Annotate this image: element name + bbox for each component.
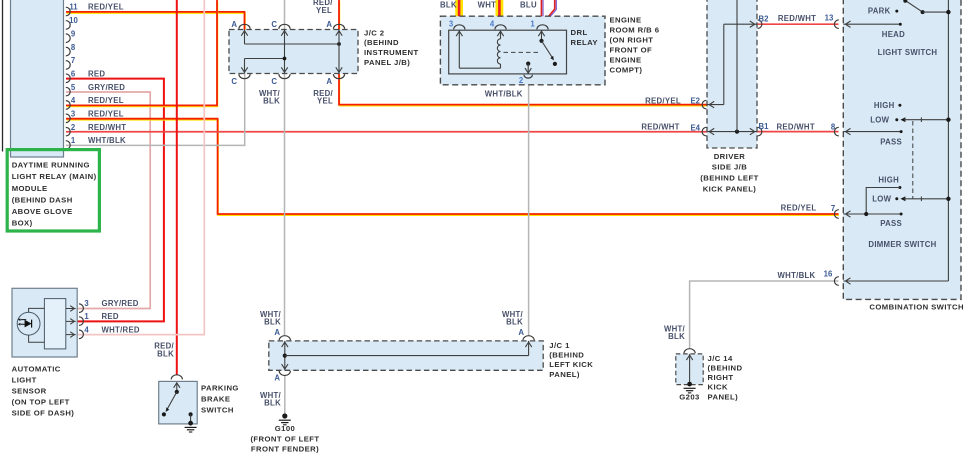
svg-text:LIGHT: LIGHT xyxy=(12,375,37,384)
svg-text:(BEHIND: (BEHIND xyxy=(708,364,743,373)
wire RED/YEL from top of page to J/C2 pin A top-right xyxy=(338,0,341,31)
driver side J/B junction block xyxy=(690,0,769,148)
label WHT/BLK below J/C2 bottom C pin xyxy=(259,89,281,106)
svg-text:16: 16 xyxy=(824,270,833,279)
label: daytime running light relay module (green outlined box) xyxy=(7,150,99,231)
svg-text:2: 2 xyxy=(71,123,76,132)
svg-text:1: 1 xyxy=(71,136,76,145)
combination switch assembly xyxy=(834,0,961,299)
wire labels near driver side J/B xyxy=(641,13,836,280)
label WHT/BLK below relay pin 2 xyxy=(485,90,523,99)
svg-text:PANEL J/B): PANEL J/B) xyxy=(364,58,410,67)
svg-text:YEL: YEL xyxy=(316,6,332,15)
svg-text:C: C xyxy=(231,77,237,86)
wire GRY/RED module pin 5 down to light sensor pin 3 xyxy=(66,92,150,309)
ground G100 xyxy=(250,413,319,453)
label: driver side J/B behind left kick panel xyxy=(700,152,758,193)
svg-text:A: A xyxy=(518,328,524,337)
svg-text:WHT/BLK: WHT/BLK xyxy=(88,136,126,145)
svg-text:(ON RIGHT: (ON RIGHT xyxy=(610,35,654,44)
label: automatic light sensor location xyxy=(12,364,75,417)
svg-text:FRONT FENDER): FRONT FENDER) xyxy=(251,445,319,454)
svg-text:E4: E4 xyxy=(690,123,700,132)
svg-text:RED/WHT: RED/WHT xyxy=(641,122,679,131)
svg-text:G203: G203 xyxy=(679,393,700,402)
svg-text:SENSOR: SENSOR xyxy=(12,386,47,395)
svg-text:13: 13 xyxy=(825,13,834,22)
svg-text:LOW: LOW xyxy=(870,115,889,124)
svg-text:BLK: BLK xyxy=(264,399,281,408)
wire RED/WHT driver side J/B pin B2 to combination switch pin 13 xyxy=(757,23,839,25)
svg-text:RED: RED xyxy=(102,312,119,321)
svg-text:BLU: BLU xyxy=(520,1,537,10)
svg-text:WHT/RED: WHT/RED xyxy=(102,325,140,334)
label: J/C1 behind left kick panel xyxy=(549,341,593,379)
svg-text:HIGH: HIGH xyxy=(878,175,899,184)
wire RED/WHT module pin 2 to driver side J/B pin E4 xyxy=(66,131,707,133)
label: parking brake switch xyxy=(201,383,239,414)
svg-text:2: 2 xyxy=(519,76,524,85)
wire RED module pin 6 down to light sensor pin 1 xyxy=(66,79,164,322)
svg-text:WHT/BLK: WHT/BLK xyxy=(485,90,523,99)
svg-text:3: 3 xyxy=(84,299,89,308)
svg-text:J/C 1: J/C 1 xyxy=(549,341,570,350)
svg-text:C: C xyxy=(271,77,277,86)
wire WHT/BLK J/C2 pin C bottom to J/C1 pin A top-left xyxy=(284,74,286,336)
svg-text:SIDE J/B: SIDE J/B xyxy=(712,163,747,172)
svg-text:11: 11 xyxy=(69,3,78,12)
svg-text:GRY/RED: GRY/RED xyxy=(102,299,139,308)
svg-text:(ON TOP LEFT: (ON TOP LEFT xyxy=(12,397,70,406)
label: J/C14 behind right kick panel xyxy=(708,354,743,401)
svg-text:BLK: BLK xyxy=(264,318,281,327)
svg-text:E2: E2 xyxy=(690,97,700,106)
svg-text:BRAKE: BRAKE xyxy=(201,394,230,403)
wire RED/YEL J/C2 pin A bottom to driver side J/B pin E2 xyxy=(339,74,708,106)
svg-text:A: A xyxy=(326,77,332,86)
svg-text:HIGH: HIGH xyxy=(874,101,895,110)
label WHT/BLK above J/C14 xyxy=(664,325,686,342)
junction connector J/C1 xyxy=(269,328,543,383)
svg-text:DRIVER: DRIVER xyxy=(714,152,746,161)
label: combination switch xyxy=(869,303,964,312)
svg-text:RED/YEL: RED/YEL xyxy=(88,3,124,12)
svg-text:(FRONT OF LEFT: (FRONT OF LEFT xyxy=(250,434,319,443)
svg-text:COMPT): COMPT) xyxy=(610,65,643,74)
wire WHT/BLK J/C1 pin A bottom to ground G100 xyxy=(284,375,286,414)
svg-text:(BEHIND DASH: (BEHIND DASH xyxy=(12,195,73,204)
labels BLK WHT BLU at top wires xyxy=(440,1,537,10)
labels WHT/BLK around J/C1 xyxy=(260,310,524,408)
wire RED/WHT driver side J/B pin B1 to combination switch pin 8 xyxy=(757,131,839,133)
svg-text:BLK: BLK xyxy=(506,318,523,327)
svg-text:DRL: DRL xyxy=(571,28,588,37)
svg-text:5: 5 xyxy=(71,83,76,92)
svg-text:GRY/RED: GRY/RED xyxy=(88,83,125,92)
wire WHT/RED from top of page down to light sensor pin 4 xyxy=(77,0,204,335)
junction connector J/C14 with ground G203 xyxy=(676,349,703,402)
svg-text:RED: RED xyxy=(88,69,105,78)
svg-text:(BEHIND LEFT: (BEHIND LEFT xyxy=(700,174,758,183)
svg-text:A: A xyxy=(326,20,332,29)
svg-text:WHT/BLK: WHT/BLK xyxy=(778,271,816,280)
svg-text:PASS: PASS xyxy=(880,137,902,146)
svg-text:AUTOMATIC: AUTOMATIC xyxy=(12,364,61,373)
svg-text:4: 4 xyxy=(84,325,89,334)
wire BLK (yellow/red) feed to DRL relay pin 3 xyxy=(455,0,463,26)
svg-text:BLK: BLK xyxy=(440,1,457,10)
svg-text:J/C 14: J/C 14 xyxy=(708,354,733,363)
wire WHT/BLK combination switch pin 16 to J/C14 xyxy=(690,281,839,348)
wire WHT/BLK from top of page to J/C2 pin C top xyxy=(284,0,286,30)
wire WHT (yellow/red) feed to DRL relay pin 4 xyxy=(495,0,503,26)
svg-text:RED/WHT: RED/WHT xyxy=(88,123,126,132)
svg-text:PARK: PARK xyxy=(868,6,891,15)
module connector box (DRL relay module, cropped at top) xyxy=(3,0,64,157)
wire RED/YEL module pin 11 to J/C2 pin A top-left xyxy=(66,12,245,31)
label RED/YEL above J/C2 top-right pin xyxy=(313,0,333,15)
svg-text:LOW: LOW xyxy=(872,194,891,203)
svg-text:HEAD: HEAD xyxy=(882,30,905,39)
svg-text:MODULE: MODULE xyxy=(12,184,48,193)
svg-text:9: 9 xyxy=(71,29,76,38)
svg-text:INSTRUMENT: INSTRUMENT xyxy=(364,48,419,57)
svg-text:ENGINE: ENGINE xyxy=(610,15,642,24)
svg-text:A: A xyxy=(274,374,280,383)
svg-text:J/C 2: J/C 2 xyxy=(364,28,384,37)
svg-text:RELAY: RELAY xyxy=(571,38,598,47)
svg-text:B1: B1 xyxy=(759,122,770,131)
svg-text:COMBINATION SWITCH: COMBINATION SWITCH xyxy=(869,303,964,312)
wire BLU feed to DRL relay pin 1 (two branches) xyxy=(541,0,556,25)
svg-text:A: A xyxy=(274,328,280,337)
svg-text:DAYTIME RUNNING: DAYTIME RUNNING xyxy=(12,161,90,170)
svg-text:1: 1 xyxy=(84,312,89,321)
svg-text:FRONT OF: FRONT OF xyxy=(610,45,653,54)
wire WHT/BLK module pin 1 to J/C2 pin C bottom-left xyxy=(66,74,245,146)
svg-text:4: 4 xyxy=(71,96,76,105)
label: engine room R/B 6 location xyxy=(610,15,660,74)
relay DRL in engine room R/B 6 xyxy=(440,16,605,85)
automatic light sensor xyxy=(12,288,140,357)
svg-text:PARKING: PARKING xyxy=(201,383,239,392)
wire RED/YEL module pin 4 up off-page xyxy=(66,0,218,107)
svg-text:A: A xyxy=(231,20,237,29)
junction connector J/C2 xyxy=(229,20,358,86)
wire RED/YEL module pin 3 to combination switch pin 7 xyxy=(66,119,839,216)
label RED/YEL below J/C2 bottom A pin xyxy=(313,89,333,106)
svg-text:BLK: BLK xyxy=(668,332,685,341)
svg-text:B2: B2 xyxy=(759,15,770,24)
svg-text:SWITCH: SWITCH xyxy=(201,405,234,414)
svg-text:BOX): BOX) xyxy=(12,219,33,228)
svg-text:3: 3 xyxy=(71,110,76,119)
svg-text:PANEL): PANEL) xyxy=(549,370,580,379)
svg-text:1: 1 xyxy=(530,20,535,29)
svg-text:KICK: KICK xyxy=(708,383,728,392)
svg-text:PASS: PASS xyxy=(880,219,902,228)
svg-text:10: 10 xyxy=(69,16,78,25)
label RED/BLK above parking brake switch xyxy=(154,342,174,359)
label: J/C2 behind instrument panel J/B xyxy=(364,28,419,67)
svg-text:7: 7 xyxy=(71,56,75,65)
svg-text:ABOVE GLOVE: ABOVE GLOVE xyxy=(12,207,73,216)
svg-text:RED/YEL: RED/YEL xyxy=(88,96,124,105)
svg-text:LEFT KICK: LEFT KICK xyxy=(549,360,593,369)
svg-text:RED/WHT: RED/WHT xyxy=(778,14,816,23)
parking brake switch xyxy=(159,375,198,432)
svg-text:LIGHT SWITCH: LIGHT SWITCH xyxy=(878,48,938,57)
svg-text:RED/YEL: RED/YEL xyxy=(88,110,124,119)
svg-text:G100: G100 xyxy=(275,424,296,433)
svg-text:RIGHT: RIGHT xyxy=(708,373,734,382)
wire WHT/BLK DRL relay pin 2 down to J/C1 pin A top-right xyxy=(528,79,530,336)
module connector pins 1-11 with numbers and wire colour labels xyxy=(66,3,127,150)
svg-text:ENGINE: ENGINE xyxy=(610,55,642,64)
wire RED/BLK from top of page down to parking brake switch xyxy=(176,0,178,375)
svg-text:KICK PANEL): KICK PANEL) xyxy=(703,184,757,193)
svg-text:BLK: BLK xyxy=(263,96,280,105)
svg-text:YEL: YEL xyxy=(317,96,333,105)
svg-text:(BEHIND: (BEHIND xyxy=(364,38,399,47)
svg-text:4: 4 xyxy=(490,20,495,29)
svg-text:ROOM R/B 6: ROOM R/B 6 xyxy=(610,25,660,34)
svg-text:WHT: WHT xyxy=(478,1,497,10)
svg-text:BLK: BLK xyxy=(157,349,174,358)
svg-text:RED/YEL: RED/YEL xyxy=(645,96,681,105)
svg-text:3: 3 xyxy=(449,20,454,29)
svg-text:SIDE OF DASH): SIDE OF DASH) xyxy=(12,408,75,417)
svg-text:6: 6 xyxy=(71,69,76,78)
svg-text:C: C xyxy=(271,20,277,29)
svg-text:RED/WHT: RED/WHT xyxy=(777,122,815,131)
svg-text:DIMMER SWITCH: DIMMER SWITCH xyxy=(868,240,936,249)
svg-text:8: 8 xyxy=(71,43,76,52)
svg-text:LIGHT RELAY (MAIN): LIGHT RELAY (MAIN) xyxy=(12,172,97,181)
svg-text:RED/YEL: RED/YEL xyxy=(781,204,817,213)
svg-text:PANEL): PANEL) xyxy=(708,392,739,401)
svg-text:(BEHIND: (BEHIND xyxy=(549,351,584,360)
